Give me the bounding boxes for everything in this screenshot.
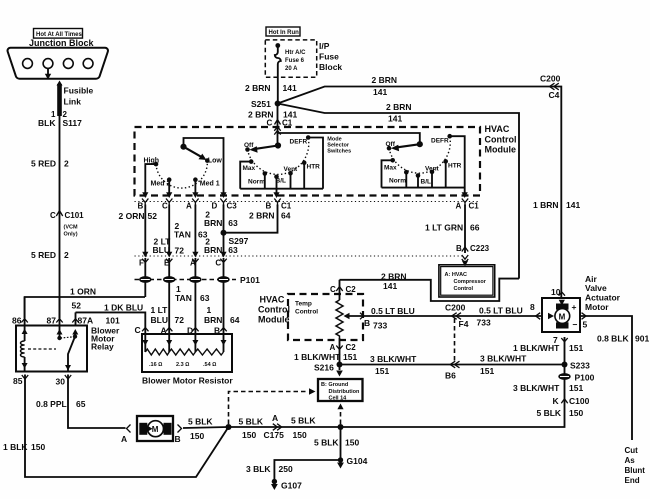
svg-text:2: 2 <box>64 159 69 169</box>
svg-text:Off: Off <box>386 141 396 148</box>
svg-text:Compressor: Compressor <box>454 279 487 285</box>
svg-text:1 BLK: 1 BLK <box>3 442 28 452</box>
svg-text:K: K <box>553 396 560 406</box>
svg-text:F4: F4 <box>459 319 469 329</box>
svg-text:86: 86 <box>12 316 22 326</box>
svg-text:150: 150 <box>293 430 307 440</box>
svg-text:Only): Only) <box>64 232 78 238</box>
svg-text:151: 151 <box>343 352 357 362</box>
svg-text:Control: Control <box>295 309 318 316</box>
svg-text:C: C <box>50 211 56 220</box>
svg-text:72: 72 <box>175 315 185 325</box>
svg-text:A: A <box>186 202 192 211</box>
svg-text:30: 30 <box>56 377 66 387</box>
svg-text:Max: Max <box>243 165 256 172</box>
svg-text:141: 141 <box>283 83 297 93</box>
svg-text:0.8 BLK: 0.8 BLK <box>597 334 630 344</box>
svg-text:A: A <box>330 343 336 352</box>
svg-text:+: + <box>572 302 577 312</box>
svg-text:Norm: Norm <box>248 179 265 186</box>
svg-text:101: 101 <box>106 316 120 326</box>
svg-text:C: C <box>135 325 141 335</box>
svg-text:141: 141 <box>388 114 402 124</box>
svg-text:S251: S251 <box>251 99 271 109</box>
svg-text:HVAC: HVAC <box>260 295 285 305</box>
svg-text:D: D <box>212 202 218 211</box>
svg-text:B: Ground: B: Ground <box>321 382 348 388</box>
svg-text:BRN: BRN <box>204 245 222 255</box>
svg-text:High: High <box>144 158 160 165</box>
svg-text:As: As <box>625 456 636 465</box>
svg-text:5 BLK: 5 BLK <box>239 417 264 427</box>
svg-text:Control: Control <box>258 305 290 315</box>
svg-text:C223: C223 <box>470 244 490 253</box>
svg-text:B: B <box>456 244 462 253</box>
svg-text:Actuator: Actuator <box>585 293 621 303</box>
svg-text:Low: Low <box>208 158 223 165</box>
svg-text:1 BLK/WHT: 1 BLK/WHT <box>294 352 341 362</box>
svg-text:5 BLK: 5 BLK <box>188 417 213 427</box>
svg-text:BRN: BRN <box>204 315 222 325</box>
svg-text:1 LT GRN: 1 LT GRN <box>425 223 463 233</box>
svg-text:151: 151 <box>569 383 583 393</box>
svg-text:1 ORN: 1 ORN <box>70 287 96 297</box>
svg-text:250: 250 <box>279 464 293 474</box>
svg-text:Blunt: Blunt <box>625 466 646 475</box>
svg-text:S233: S233 <box>570 361 590 371</box>
svg-text:141: 141 <box>383 281 397 291</box>
svg-text:63: 63 <box>228 218 238 228</box>
svg-text:DEFR: DEFR <box>431 138 449 145</box>
svg-text:87A: 87A <box>78 316 94 326</box>
svg-text:(VCM: (VCM <box>64 225 78 231</box>
svg-text:Temp: Temp <box>295 301 312 308</box>
svg-text:1: 1 <box>207 305 212 315</box>
svg-text:733: 733 <box>477 318 491 328</box>
svg-text:8: 8 <box>530 302 535 312</box>
svg-text:733: 733 <box>373 321 387 331</box>
svg-text:Control: Control <box>454 286 474 292</box>
svg-text:C: C <box>162 202 168 211</box>
svg-text:Fuse 6: Fuse 6 <box>285 58 305 64</box>
svg-text:BLU: BLU <box>151 315 168 325</box>
svg-text:901: 901 <box>635 334 649 344</box>
svg-text:.54 Ω: .54 Ω <box>203 362 216 368</box>
svg-text:B: B <box>364 318 370 328</box>
svg-text:Module: Module <box>258 315 290 325</box>
svg-text:5: 5 <box>583 320 588 330</box>
svg-text:150: 150 <box>242 430 256 440</box>
svg-text:Distribution: Distribution <box>329 389 360 395</box>
svg-text:63: 63 <box>200 293 210 303</box>
svg-text:2 BRN: 2 BRN <box>381 272 407 282</box>
svg-text:C1: C1 <box>281 202 292 211</box>
svg-text:64: 64 <box>281 211 291 221</box>
svg-text:2 BRN: 2 BRN <box>249 211 275 221</box>
svg-text:2 ORN: 2 ORN <box>119 211 145 221</box>
svg-text:B: B <box>266 202 272 211</box>
svg-text:0.5 LT BLU: 0.5 LT BLU <box>479 306 523 316</box>
svg-text:Link: Link <box>64 97 82 107</box>
svg-text:0.5 LT BLU: 0.5 LT BLU <box>371 306 415 316</box>
svg-text:C: C <box>330 285 336 294</box>
svg-text:Block: Block <box>319 62 342 72</box>
svg-text:.16 Ω: .16 Ω <box>149 362 162 368</box>
svg-text:20 A: 20 A <box>285 66 298 72</box>
svg-text:Norm: Norm <box>389 178 406 185</box>
svg-text:Med 2: Med 2 <box>151 181 171 188</box>
svg-text:Med 1: Med 1 <box>200 181 220 188</box>
svg-text:66: 66 <box>470 223 480 233</box>
svg-text:M: M <box>152 425 159 434</box>
svg-text:HVAC: HVAC <box>485 124 510 134</box>
svg-text:Cut: Cut <box>625 446 639 455</box>
svg-text:63: 63 <box>228 245 238 255</box>
svg-text:Motor: Motor <box>585 302 609 312</box>
svg-text:5 RED: 5 RED <box>31 159 56 169</box>
svg-text:Max: Max <box>384 165 397 172</box>
svg-text:141: 141 <box>373 87 387 97</box>
svg-text:1 BLK/WHT: 1 BLK/WHT <box>513 343 560 353</box>
svg-text:C: C <box>215 259 221 268</box>
svg-text:C2: C2 <box>346 343 357 352</box>
svg-text:C200: C200 <box>445 303 466 313</box>
svg-text:B: B <box>138 202 144 211</box>
svg-text:Fusible: Fusible <box>64 86 94 96</box>
svg-text:Vent: Vent <box>425 166 440 173</box>
svg-text:Htr A/C: Htr A/C <box>285 50 306 56</box>
svg-text:C3: C3 <box>227 202 238 211</box>
svg-text:DEFR: DEFR <box>290 139 308 146</box>
svg-text:5 BLK: 5 BLK <box>291 416 316 426</box>
svg-text:M: M <box>559 312 566 321</box>
svg-text:3 BLK/WHT: 3 BLK/WHT <box>513 383 560 393</box>
svg-text:2 BRN: 2 BRN <box>372 75 398 85</box>
svg-text:85: 85 <box>13 376 23 386</box>
svg-text:HTR: HTR <box>448 163 462 170</box>
svg-text:5 BLK: 5 BLK <box>314 438 339 448</box>
svg-text:C4: C4 <box>549 90 560 100</box>
svg-text:C200: C200 <box>540 74 561 84</box>
svg-text:B6: B6 <box>445 371 456 381</box>
svg-text:C2: C2 <box>346 285 357 294</box>
svg-text:G107: G107 <box>281 481 302 491</box>
svg-text:2.3 Ω: 2.3 Ω <box>176 362 189 368</box>
svg-text:52: 52 <box>72 301 82 311</box>
svg-text:Cell 14: Cell 14 <box>329 396 348 402</box>
svg-text:Hot In Run: Hot In Run <box>269 30 300 36</box>
svg-text:141: 141 <box>566 200 580 210</box>
svg-text:1 LT: 1 LT <box>151 305 169 315</box>
svg-text:I/P: I/P <box>319 41 330 51</box>
svg-text:−: − <box>573 320 578 330</box>
svg-text:151: 151 <box>375 366 389 376</box>
svg-text:C175: C175 <box>264 430 285 440</box>
svg-text:S117: S117 <box>63 118 83 128</box>
svg-text:C101: C101 <box>65 211 85 220</box>
svg-text:2 BRN: 2 BRN <box>386 102 412 112</box>
svg-text:Junction Block: Junction Block <box>29 38 95 48</box>
svg-text:C1: C1 <box>469 202 480 211</box>
svg-text:End: End <box>625 476 640 485</box>
svg-text:Relay: Relay <box>91 342 114 352</box>
svg-text:HTR: HTR <box>307 164 321 171</box>
svg-text:5 BLK: 5 BLK <box>537 408 562 418</box>
svg-text:A: A <box>456 202 462 211</box>
svg-text:52: 52 <box>148 211 158 221</box>
svg-text:Vent: Vent <box>284 166 299 173</box>
svg-text:0.8 PPL: 0.8 PPL <box>36 399 67 409</box>
svg-text:C100: C100 <box>569 396 590 406</box>
svg-text:3 BLK: 3 BLK <box>246 464 271 474</box>
svg-text:A: A <box>121 434 127 444</box>
svg-text:B/L: B/L <box>421 179 432 186</box>
svg-text:G104: G104 <box>347 456 368 466</box>
svg-text:Off: Off <box>244 142 254 149</box>
svg-text:P101: P101 <box>240 275 260 285</box>
svg-text:87: 87 <box>47 316 57 326</box>
svg-text:151: 151 <box>569 343 583 353</box>
svg-text:Blower Motor Resistor: Blower Motor Resistor <box>142 376 233 386</box>
svg-text:1 BRN: 1 BRN <box>533 200 559 210</box>
svg-text:3 BLK/WHT: 3 BLK/WHT <box>480 354 527 364</box>
svg-text:150: 150 <box>190 431 204 441</box>
svg-text:F: F <box>139 259 144 268</box>
svg-text:64: 64 <box>230 315 240 325</box>
svg-text:150: 150 <box>569 408 583 418</box>
svg-text:TAN: TAN <box>175 293 192 303</box>
svg-text:Valve: Valve <box>585 283 607 293</box>
svg-text:P100: P100 <box>575 373 595 383</box>
svg-text:3 BLK/WHT: 3 BLK/WHT <box>370 354 417 364</box>
svg-text:5 RED: 5 RED <box>31 250 56 260</box>
svg-text:Control: Control <box>485 135 517 145</box>
svg-text:150: 150 <box>31 442 45 452</box>
svg-text:2 BRN: 2 BRN <box>245 83 271 93</box>
svg-text:BRN: BRN <box>204 218 222 228</box>
svg-text:Module: Module <box>485 145 517 155</box>
svg-text:BLK: BLK <box>38 118 56 128</box>
svg-text:S216: S216 <box>314 363 334 373</box>
svg-text:B/L: B/L <box>276 178 287 185</box>
svg-text:TAN: TAN <box>174 230 191 240</box>
svg-text:A: HVAC: A: HVAC <box>445 272 468 278</box>
svg-text:Switches: Switches <box>327 149 351 155</box>
svg-text:2: 2 <box>64 250 69 260</box>
svg-text:1 DK BLU: 1 DK BLU <box>104 303 143 313</box>
svg-text:150: 150 <box>345 438 359 448</box>
svg-text:Fuse: Fuse <box>319 52 339 62</box>
svg-text:72: 72 <box>175 246 185 256</box>
svg-text:B: B <box>175 434 181 444</box>
svg-text:A: A <box>272 413 278 423</box>
svg-text:65: 65 <box>76 399 86 409</box>
svg-text:151: 151 <box>480 366 494 376</box>
